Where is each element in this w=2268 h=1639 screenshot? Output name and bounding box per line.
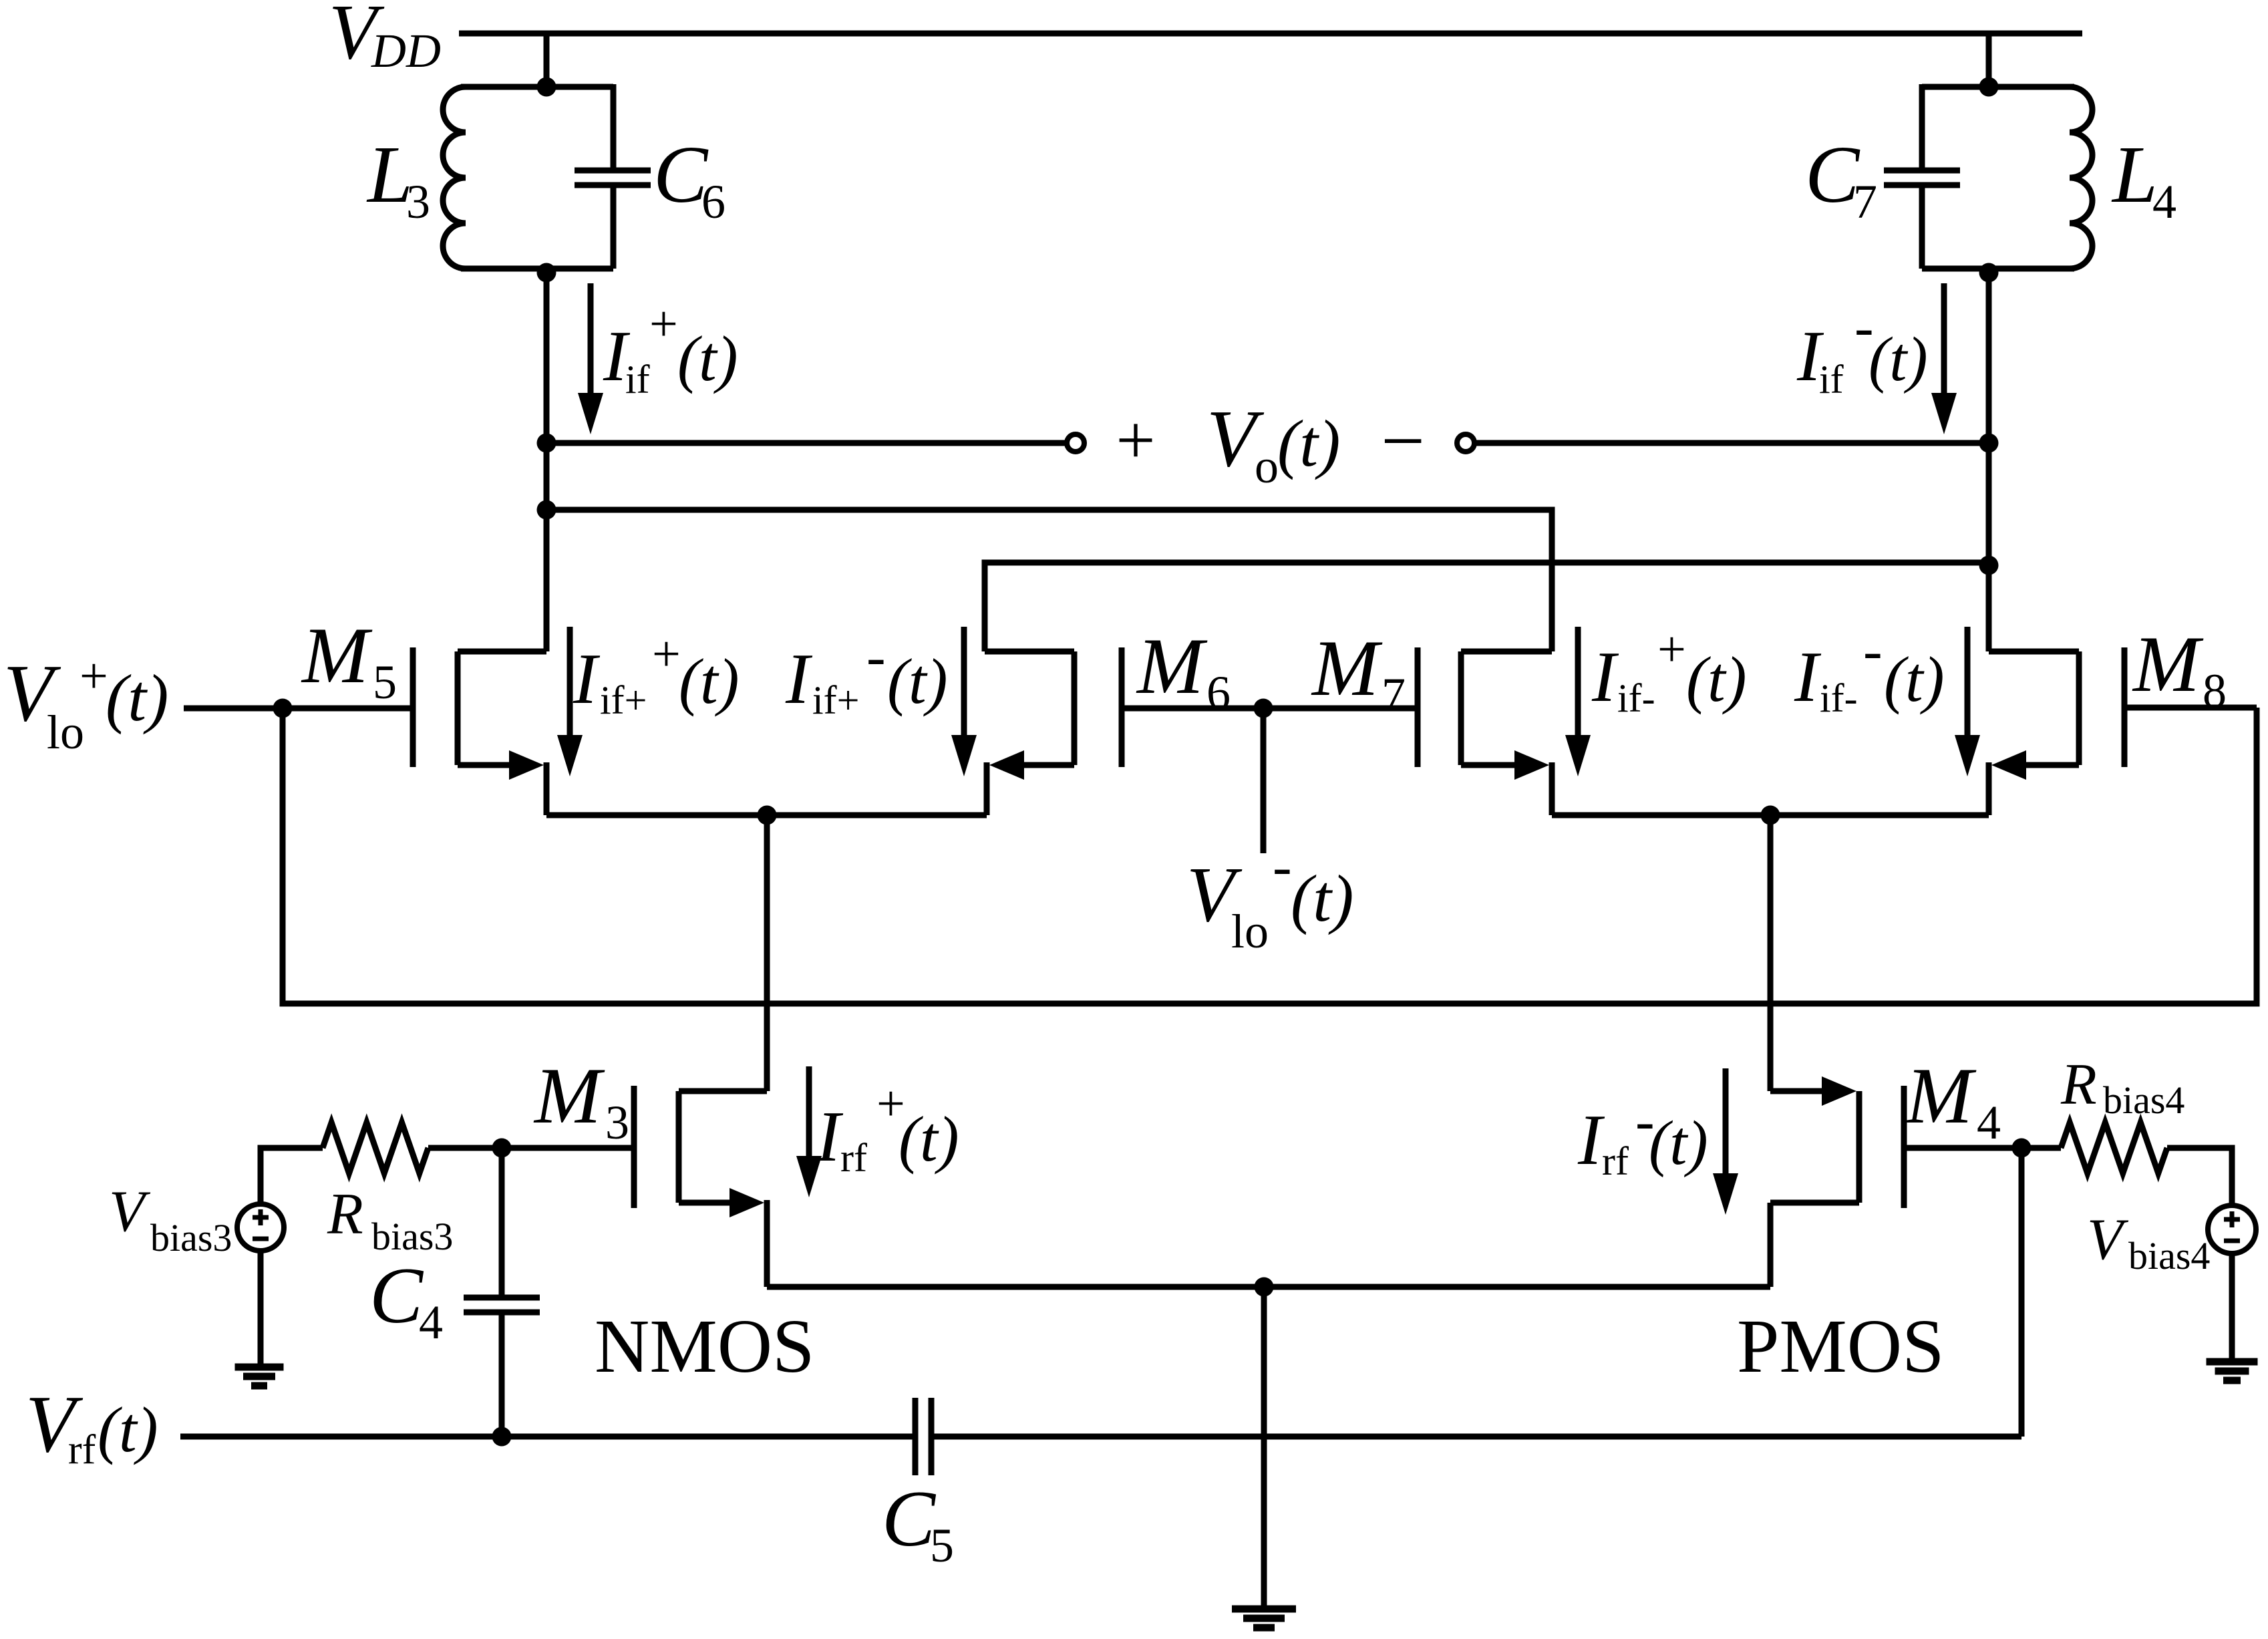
transistor M6 source lead with arrow: [989, 750, 1074, 780]
svg-text:bias3: bias3: [150, 1216, 232, 1259]
transistor M8 channel bar: [2076, 651, 2082, 765]
svg-text:-: -: [866, 624, 886, 688]
label Vbias4: [2087, 1207, 2210, 1278]
svg-text:bias4: bias4: [2103, 1078, 2184, 1122]
label Vo(t): [1206, 394, 1340, 493]
svg-text:(t): (t): [677, 323, 738, 394]
label plus sign: [1116, 401, 1155, 479]
svg-text:(t): (t): [1884, 643, 1945, 715]
transistor M4 channel bar: [1856, 1091, 1862, 1203]
svg-text:I: I: [573, 639, 601, 719]
wire M6 source drop: [984, 762, 990, 815]
svg-text:bias4: bias4: [2128, 1234, 2210, 1278]
wire right tank top: [1922, 84, 2074, 90]
transistor M6 gate bar: [1119, 647, 1125, 767]
svg-text:+: +: [652, 626, 681, 682]
wire Vrf line right: [934, 1434, 2021, 1440]
svg-text:M: M: [1311, 623, 1383, 712]
capacitor C4: [464, 1298, 540, 1312]
capacitor C7: [1884, 170, 1960, 185]
svg-text:C: C: [882, 1474, 937, 1563]
svg-text:I: I: [785, 639, 813, 719]
label L4: [2111, 130, 2176, 229]
wire Rbias4 to Vbias4: [2167, 1148, 2232, 1207]
transistor M3 source lead with arrow: [679, 1188, 764, 1217]
capacitor C6: [575, 170, 651, 185]
transistor M8 drain lead: [1989, 649, 2079, 655]
svg-text:M: M: [1905, 1051, 1977, 1140]
node M3 gate junction: [492, 1139, 512, 1158]
current arrow Iif+: [578, 283, 603, 434]
transistor M7 gate bar: [1415, 647, 1421, 767]
svg-text:M: M: [301, 611, 373, 700]
svg-text:(t): (t): [1291, 861, 1353, 935]
label M3: [533, 1051, 629, 1149]
label M8: [2132, 619, 2227, 718]
transistor M4 gate lead: [1904, 1145, 2021, 1151]
svg-text:I: I: [1577, 1100, 1605, 1180]
svg-text:if+: if+: [600, 678, 647, 722]
svg-text:5: 5: [373, 655, 397, 709]
power rail VDD label: [329, 0, 441, 78]
transistor M4 source lead: [1770, 1200, 1859, 1206]
svg-text:(t): (t): [679, 645, 740, 717]
svg-text:6: 6: [701, 175, 725, 229]
wire Rbias3 to gate node: [428, 1145, 634, 1151]
transistor M7 channel bar: [1458, 651, 1464, 765]
wire M4 source drop: [1768, 1203, 1774, 1287]
label M5: [301, 611, 397, 709]
node C4 to Vrf line: [492, 1427, 512, 1447]
wire Vlo+ wrap to M8 gate: [283, 708, 2257, 1004]
label Irf+(t): [816, 1076, 959, 1180]
svg-text:+: +: [79, 648, 108, 704]
transistor M6 gate lead: [1122, 706, 1263, 712]
transistor M6 drain lead: [985, 649, 1074, 655]
label C4: [369, 1251, 443, 1349]
wire Vbias4 to ground: [2229, 1253, 2235, 1362]
current arrow Iif-+: [1565, 627, 1591, 776]
svg-text:−: −: [1381, 398, 1425, 484]
svg-text:R: R: [2060, 1052, 2097, 1117]
wire C6 upper lead: [611, 84, 617, 171]
node M4 gate junction: [2012, 1139, 2032, 1158]
wire Vo+ line: [546, 440, 1067, 446]
svg-text:(t): (t): [106, 661, 168, 735]
svg-text:(t): (t): [1649, 1108, 1708, 1178]
label PMOS: [1737, 1304, 1945, 1388]
svg-text:4: 4: [419, 1296, 443, 1349]
inductor L3: [443, 87, 466, 269]
label C6: [653, 130, 725, 229]
transistor M5 drain lead: [458, 649, 546, 655]
transistor M8 source lead with arrow: [1991, 750, 2079, 780]
node cross-couple left: [537, 500, 556, 520]
svg-text:+: +: [1657, 621, 1686, 678]
current arrow Iif-: [1931, 283, 1957, 434]
wire Vbias3 to resistor: [261, 1148, 323, 1204]
svg-text:I: I: [816, 1097, 844, 1177]
transistor M4 drain lead with arrow: [1770, 1076, 1856, 1106]
svg-text:(t): (t): [1277, 406, 1340, 480]
svg-text:if: if: [625, 357, 650, 402]
current arrow Iif++: [557, 627, 583, 776]
wire Vlo- stub: [1261, 708, 1267, 853]
wire right pair common source: [1552, 812, 1989, 818]
wire VDD rail: [459, 31, 2082, 37]
wire Vo- line: [1474, 440, 1989, 446]
svg-text:4: 4: [1977, 1096, 2001, 1149]
wire left output column upper: [544, 269, 550, 651]
svg-text:rf: rf: [1602, 1139, 1629, 1183]
svg-text:rf: rf: [840, 1136, 867, 1180]
wire M3 source drop: [764, 1200, 770, 1287]
node left tank bottom: [537, 263, 556, 283]
label Iif+(t): [603, 296, 738, 402]
svg-text:rf: rf: [68, 1427, 96, 1473]
label Vlo-(t): [1186, 834, 1353, 958]
svg-text:-: -: [1273, 834, 1292, 898]
svg-text:lo: lo: [47, 706, 84, 759]
transistor M3 gate bar: [631, 1086, 637, 1208]
svg-text:if-: if-: [1820, 676, 1858, 720]
svg-text:7: 7: [1382, 668, 1406, 722]
transistor M8 gate lead: [2124, 705, 2257, 711]
transistor M5 channel bar: [455, 651, 461, 765]
wire M3 drain riser: [764, 815, 770, 1091]
svg-text:PMOS: PMOS: [1737, 1304, 1945, 1388]
svg-text:(t): (t): [899, 1103, 959, 1175]
svg-text:lo: lo: [1231, 905, 1269, 958]
svg-text:(t): (t): [1869, 325, 1928, 394]
svg-text:-: -: [1863, 618, 1883, 682]
label Vbias3: [109, 1179, 232, 1259]
svg-text:o: o: [1255, 440, 1279, 493]
node Vlo+ junction: [273, 699, 293, 718]
wire gate node to Rbias4: [2021, 1145, 2061, 1151]
wire C4 upper lead: [499, 1148, 505, 1300]
node right tank top: [1979, 78, 1999, 97]
ground center: [1232, 1609, 1296, 1628]
wire Vrf line left: [180, 1434, 913, 1440]
wire M4 drain riser: [1768, 815, 1774, 1091]
svg-text:(t): (t): [98, 1394, 158, 1465]
label M4: [1905, 1051, 2001, 1149]
label L3: [366, 130, 430, 229]
capacitor C5: [915, 1398, 931, 1475]
label C5: [882, 1474, 954, 1572]
svg-text:L: L: [2111, 130, 2158, 220]
label Iif--(t): [1794, 618, 1945, 720]
transistor M7 gate lead: [1263, 706, 1418, 712]
ground Vbias4: [2207, 1362, 2258, 1380]
svg-text:(t): (t): [887, 645, 948, 717]
svg-text:C: C: [653, 130, 709, 220]
svg-text:C: C: [1805, 130, 1860, 220]
resistor Rbias3: [323, 1123, 428, 1173]
svg-text:V: V: [109, 1179, 151, 1244]
capacitor C7 upper lead: [1919, 84, 1925, 171]
wire VDD to left tank: [544, 33, 550, 90]
transistor M4 gate bar: [1901, 1086, 1907, 1208]
svg-text:+: +: [649, 296, 678, 352]
wire right output column upper: [1986, 269, 1992, 651]
label Iif-(t): [1796, 295, 1928, 402]
current arrow Irf+: [796, 1066, 822, 1197]
label Irf-(t): [1577, 1088, 1708, 1183]
label Rbias3: [327, 1182, 453, 1258]
wire C4 lower lead: [499, 1312, 505, 1437]
node Vlo- junction: [1254, 699, 1273, 718]
wire C6 lower lead: [611, 184, 617, 269]
label Vlo+(t): [3, 648, 168, 759]
transistor M6 channel bar: [1072, 651, 1078, 765]
svg-text:M: M: [533, 1051, 605, 1140]
svg-text:+: +: [1116, 401, 1155, 479]
svg-text:DD: DD: [371, 24, 441, 78]
wire left tank top: [461, 84, 613, 90]
label C7: [1805, 130, 1877, 229]
label Rbias4: [2060, 1052, 2184, 1122]
svg-text:C: C: [369, 1251, 424, 1340]
svg-text:4: 4: [2152, 175, 2176, 229]
svg-text:6: 6: [1206, 666, 1231, 720]
wire left tank bottom: [461, 266, 613, 272]
wire M7 source drop: [1549, 762, 1555, 815]
svg-text:I: I: [1591, 637, 1619, 717]
svg-text:7: 7: [1853, 175, 1877, 229]
svg-text:if-: if-: [1617, 676, 1655, 720]
resistor Rbias4: [2061, 1123, 2167, 1173]
ground Vbias3: [235, 1367, 284, 1386]
node right common source: [1761, 806, 1780, 825]
current arrow Iif--: [1955, 627, 1980, 776]
svg-text:R: R: [327, 1182, 363, 1247]
wire left pair common source: [546, 812, 987, 818]
transistor M5 gate bar: [410, 647, 416, 767]
svg-text:5: 5: [930, 1519, 954, 1572]
node left tank top: [537, 78, 556, 97]
node cross-couple right: [1979, 556, 1999, 575]
node Vo- tap: [1979, 434, 1999, 453]
label M6: [1136, 621, 1231, 720]
node tail junction: [1255, 1278, 1274, 1297]
label Iif+-(t): [785, 624, 948, 722]
wire Vlo+ gate lead: [184, 706, 413, 712]
transistor M7 drain lead: [1461, 649, 1552, 655]
label Iif-+(t): [1591, 621, 1747, 720]
wire VDD to right tank: [1986, 33, 1992, 90]
wire right tank bottom: [1922, 266, 2074, 272]
wire Vrf riser to M4 gate: [2019, 1148, 2025, 1437]
node right tank bottom: [1979, 263, 1999, 283]
current arrow Iif+-: [951, 627, 977, 776]
svg-text:3: 3: [406, 175, 430, 229]
label M7: [1311, 623, 1406, 722]
label NMOS: [595, 1304, 814, 1388]
wire tail to ground: [1261, 1287, 1267, 1609]
svg-text:if: if: [1819, 357, 1844, 402]
voltage source Vbias4: [2208, 1205, 2256, 1253]
svg-text:3: 3: [605, 1096, 629, 1149]
transistor M3 drain lead: [679, 1088, 767, 1094]
transistor M5 source lead with arrow: [458, 750, 544, 780]
svg-text:V: V: [2087, 1207, 2129, 1272]
voltage source Vbias3: [237, 1204, 284, 1251]
wire cross-couple A: [546, 510, 1552, 651]
inductor L4: [2070, 87, 2092, 269]
svg-text:NMOS: NMOS: [595, 1304, 814, 1388]
wire NMOS-PMOS common: [767, 1284, 1770, 1290]
svg-text:I: I: [1794, 637, 1822, 717]
node left common source: [758, 806, 777, 825]
label Iif++(t): [573, 626, 740, 722]
node Vo+ tap: [537, 434, 556, 453]
wire Vbias3 to ground: [258, 1251, 264, 1367]
current arrow Irf-: [1713, 1068, 1738, 1215]
svg-text:M: M: [1136, 621, 1208, 710]
transistor M3 channel bar: [676, 1091, 682, 1203]
wire C7 lower lead: [1919, 184, 1925, 269]
svg-text:(t): (t): [1686, 643, 1747, 715]
svg-text:if+: if+: [812, 678, 860, 722]
wire cross-couple B: [985, 563, 1985, 651]
wire M8 source drop: [1986, 762, 1992, 815]
wire M5 source drop: [544, 762, 550, 815]
terminal Vo-: [1457, 434, 1474, 452]
label minus sign: [1381, 398, 1425, 484]
transistor M8 gate bar: [2122, 647, 2128, 767]
terminal Vo+: [1067, 434, 1084, 452]
transistor M7 source lead with arrow: [1461, 750, 1549, 780]
label Vrf(t): [25, 1379, 158, 1473]
svg-text:M: M: [2132, 619, 2204, 708]
